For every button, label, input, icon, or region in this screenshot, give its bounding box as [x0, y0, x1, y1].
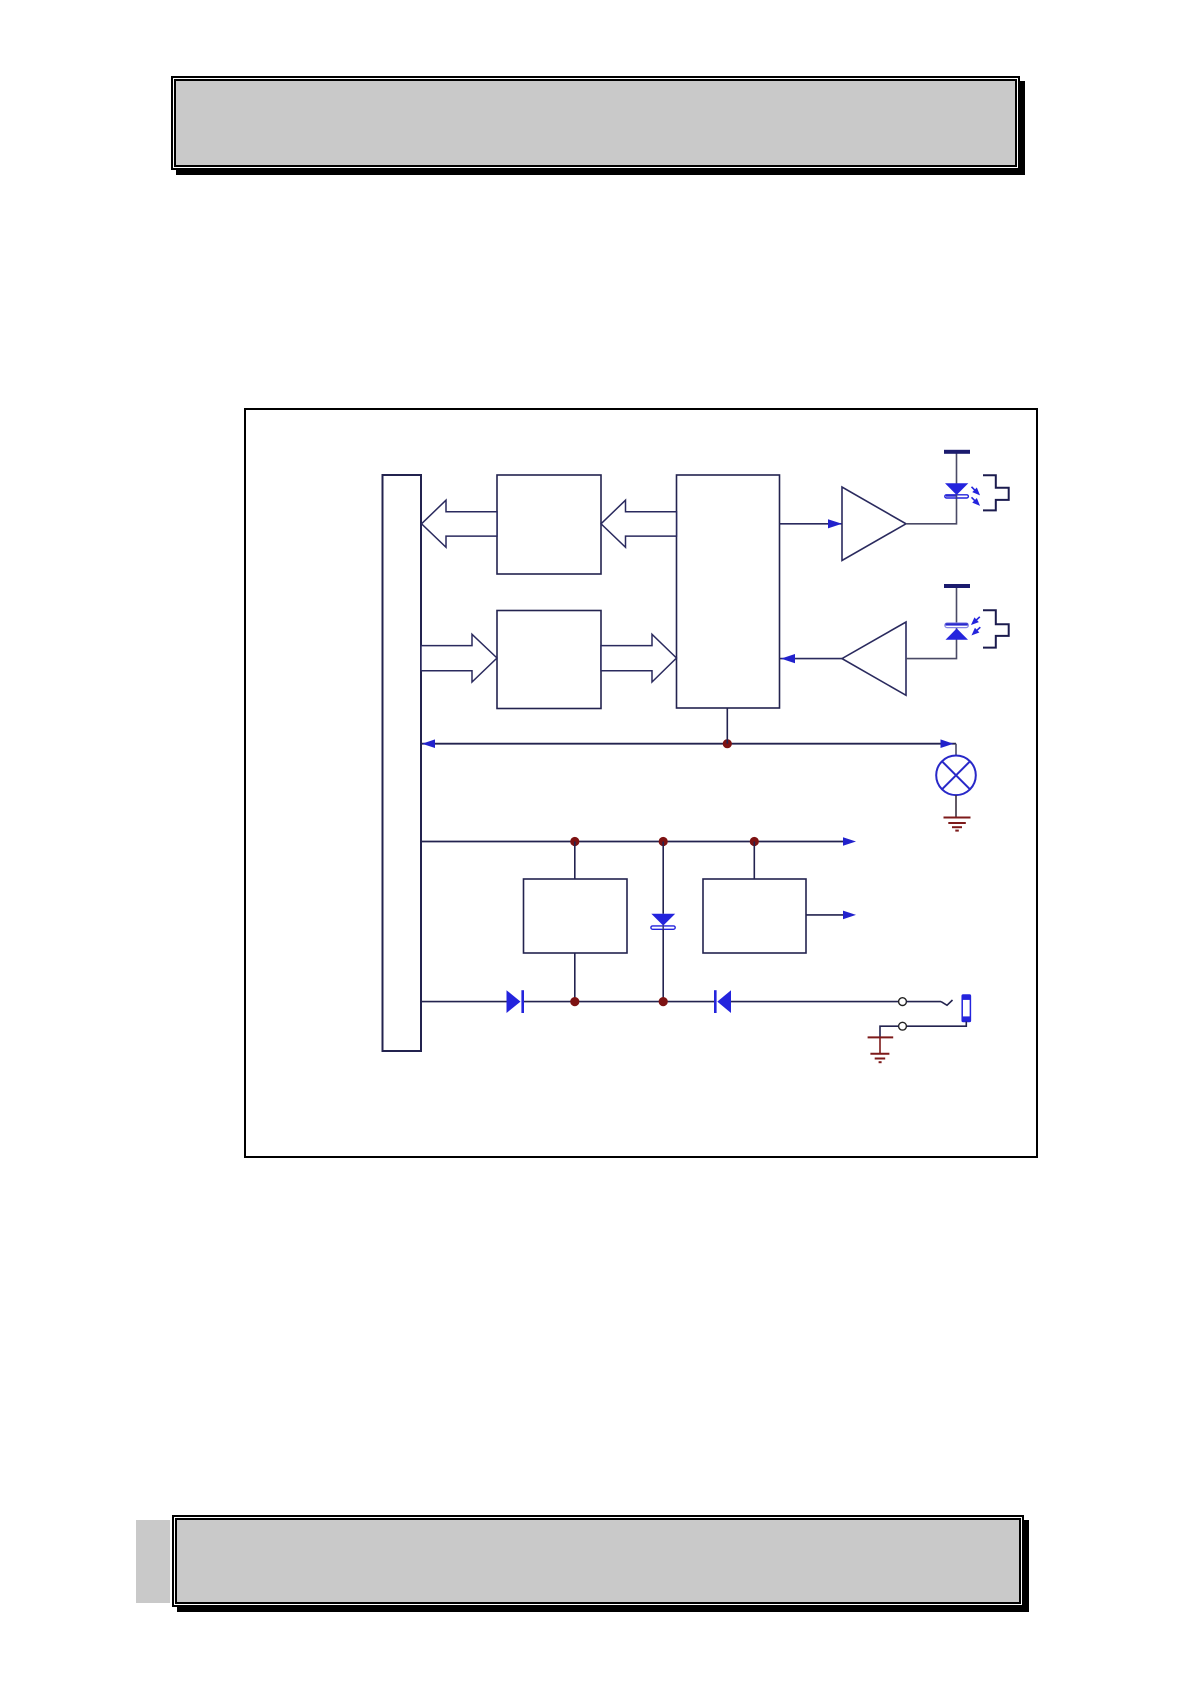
power rail arrowhead	[843, 837, 856, 846]
input line middle segment	[524, 1001, 714, 1003]
arrowhead into U3	[781, 654, 795, 663]
wire U3 to amp B1	[780, 523, 843, 525]
bottom footer bar	[172, 1515, 1024, 1607]
input line left segment	[422, 1001, 507, 1003]
node on rail above U5	[750, 837, 759, 846]
block U1 (top-left)	[497, 475, 601, 574]
top header bar	[171, 76, 1020, 170]
wire rail to zener Z1	[662, 842, 664, 914]
wire amp B1 to optocoupler D1	[906, 453, 957, 524]
bottom-left gray tab	[136, 1520, 170, 1603]
wire down to lamp	[955, 744, 957, 756]
wire T1 to switch	[906, 1001, 941, 1003]
diode D4 cathode bar	[714, 990, 717, 1013]
diode D3 (pointing right)	[507, 990, 521, 1013]
diagram frame	[244, 408, 1038, 1158]
op-amp B1 (transmit driver)	[842, 487, 906, 561]
arrowhead into amp B1	[828, 519, 842, 528]
wire optocoupler D2 to amp B2	[906, 588, 957, 659]
hollow bus arrow A4 (U2 to U3, pointing right)	[601, 634, 677, 682]
hollow bus arrow A3 (J1 to U2, pointing right)	[421, 634, 497, 682]
wire T2 to ground	[880, 1026, 899, 1037]
ground GND2 stem	[879, 1037, 881, 1053]
arrowhead toward lamp	[941, 739, 954, 748]
LED D1 emission arrows	[970, 485, 981, 496]
wire zener to bottom line	[662, 930, 664, 1002]
battery/fuse F1 body	[962, 995, 970, 1022]
node D3 side	[570, 997, 579, 1006]
U5 output arrowhead	[843, 911, 856, 920]
ground GND1 (below lamp)	[944, 818, 971, 831]
supply bar for D2	[944, 584, 970, 588]
switch blade S1	[941, 1000, 953, 1005]
supply bar for D1	[944, 450, 970, 454]
hollow bus arrow A1 (U1 to J1, pointing left)	[422, 500, 498, 547]
hollow bus arrow A2 (U3 to U1, pointing left)	[601, 500, 677, 547]
wire U4 bottom to input line	[574, 953, 576, 1002]
input line right segment	[731, 1001, 899, 1003]
ground GND2	[868, 1037, 894, 1062]
LED D1 cathode bar	[945, 495, 969, 498]
F1 bottom cap	[962, 1016, 971, 1021]
diode D4 (pointing left)	[717, 990, 731, 1013]
photodiode D2 cathode bar	[945, 623, 969, 628]
wire U3 bottom to lamp line	[726, 708, 728, 744]
block U4 (regulator lower-left)	[524, 879, 628, 953]
photodiode D2 (receive optocoupler, pointing up)	[946, 628, 969, 639]
power rail wire	[422, 841, 845, 843]
node on rail above zener	[659, 837, 668, 846]
F1 top cap	[962, 995, 971, 1000]
node zener bottom	[659, 997, 668, 1006]
bus connector J1 (backplane bar)	[383, 475, 422, 1051]
block U5 (regulator lower-right)	[703, 879, 806, 953]
U5 output wire	[806, 914, 844, 916]
zener diode Z1	[651, 914, 675, 926]
op-amp B2 (receive buffer)	[842, 622, 906, 695]
LED D1 (transmit optocoupler)	[945, 483, 968, 495]
control wire (lamp line)	[422, 743, 957, 745]
D2 incoming light arrows	[970, 615, 981, 626]
diode D3 cathode bar	[521, 990, 524, 1013]
terminal T1 (upper)	[899, 998, 907, 1006]
node on rail above U4	[570, 837, 579, 846]
wire F1 to terminal T2	[906, 1022, 966, 1027]
wire lamp to ground	[955, 795, 957, 817]
junction node on lamp line	[723, 739, 732, 748]
connector plug P1 (top right)	[983, 475, 1009, 510]
block U3 (central controller)	[677, 475, 780, 708]
terminal T2 (lower)	[899, 1022, 907, 1030]
zener Z1 cathode bar	[651, 926, 675, 929]
block U2 (second row left)	[497, 611, 601, 709]
wire amp B2 output to U3	[780, 658, 843, 660]
wire rail to U5	[753, 842, 755, 880]
arrowhead into bus J1	[422, 739, 435, 748]
wire rail to U4	[574, 842, 576, 880]
lamp L1 (indicator)	[936, 756, 976, 796]
connector plug P2 (right middle)	[983, 610, 1009, 647]
